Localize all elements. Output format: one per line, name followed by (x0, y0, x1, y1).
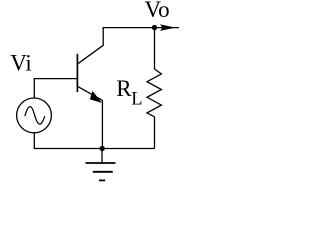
ground junction dot (100, 146, 105, 151)
transistor Q1 emitter arrowhead (90, 91, 102, 103)
output arrow wire (155, 27, 180, 29)
transistor Q1 base bar (76, 54, 78, 92)
source V1 (sine source circle) (17, 98, 52, 133)
transistor Q1 emitter lead (78, 87, 103, 101)
transistor Q1 collector lead (78, 45, 103, 63)
svg-text:R: R (116, 76, 132, 101)
wire resistor to bottom rail (154, 117, 156, 149)
svg-text:Vi: Vi (10, 50, 32, 75)
ground bar 3 (99, 179, 105, 181)
wire emitter down to bottom rail (101, 100, 103, 148)
output arrowhead (160, 24, 176, 31)
wire node to resistor RL (154, 28, 156, 69)
svg-text:Vo: Vo (145, 0, 170, 22)
bottom rail wire (34, 133, 154, 149)
resistor RL zigzag (147, 69, 161, 117)
ground bar 2 (93, 171, 113, 173)
svg-text:L: L (131, 89, 142, 109)
ground stem (101, 149, 103, 164)
ground bar 1 (86, 162, 116, 164)
wire source top to transistor base (34, 79, 77, 98)
source V1 sine symbol (25, 107, 45, 125)
node Vo junction dot (152, 25, 157, 30)
wire collector to top rail (103, 28, 154, 46)
